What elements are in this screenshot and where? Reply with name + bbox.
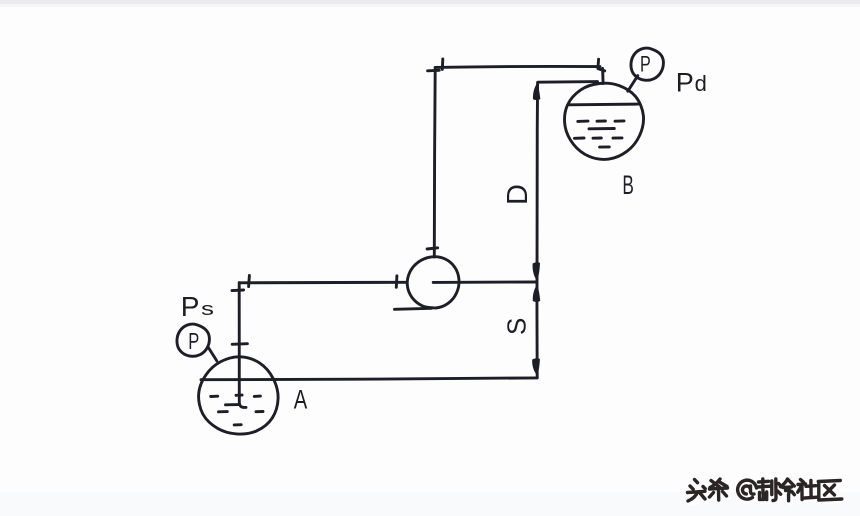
- wire suction pipe (tank A riser corner to pump inlet): [240, 281, 407, 284]
- wire bottom extension / tank A level line: [201, 378, 537, 380]
- arrow S top (points up): [533, 284, 540, 302]
- svg-text:P: P: [676, 67, 694, 97]
- svg-text:S: S: [502, 318, 532, 335]
- tick pair at top-left corner: [441, 59, 444, 69]
- tank B liquid dashes: [575, 121, 625, 147]
- dim D top extension line to tank B: [538, 80, 598, 83]
- watermark dark copy: [688, 479, 842, 501]
- wire top horizontal run: [435, 65, 600, 69]
- arrow S bottom (points down): [532, 358, 540, 375]
- tick at top-right end: [598, 59, 605, 71]
- tick on riser below corner: [232, 289, 244, 293]
- svg-text:s: s: [201, 299, 214, 319]
- svg-text:P: P: [640, 51, 651, 76]
- watermark white emboss copy: [690, 481, 844, 503]
- tank A liquid dashes: [211, 395, 263, 425]
- tick on riser mid (above tank A): [232, 342, 247, 345]
- gauge Ps circle: [177, 324, 209, 356]
- dim line D vertical: [535, 83, 539, 282]
- wire discharge horizontal pump center to dim line: [433, 281, 537, 284]
- svg-text:d: d: [695, 71, 707, 96]
- pump base line: [395, 308, 432, 309]
- wire left riser into tank A: [239, 283, 246, 408]
- tank A circle: [199, 357, 279, 434]
- svg-text:P: P: [188, 328, 199, 354]
- wire riser pump top to top run: [433, 68, 437, 257]
- svg-text:P: P: [181, 291, 200, 322]
- tick on riser above pump: [427, 248, 438, 249]
- arrow D top (points up): [533, 83, 540, 100]
- svg-text:D: D: [502, 184, 534, 205]
- gauge Pd leader line: [628, 76, 638, 92]
- tick at suction corner: [247, 276, 251, 287]
- tick near pump inlet: [395, 276, 399, 288]
- svg-text:A: A: [294, 384, 308, 414]
- gauge Ps leader line: [208, 347, 217, 361]
- arrow D bottom (points down): [533, 262, 540, 281]
- pump U1 circle: [407, 257, 459, 308]
- dim line S vertical: [536, 283, 539, 378]
- tank B circle: [565, 83, 644, 159]
- wire stub into tank B: [601, 69, 604, 84]
- gauge Pd circle: [631, 48, 663, 80]
- tank B liquid level line: [570, 103, 638, 107]
- svg-text:B: B: [622, 170, 634, 200]
